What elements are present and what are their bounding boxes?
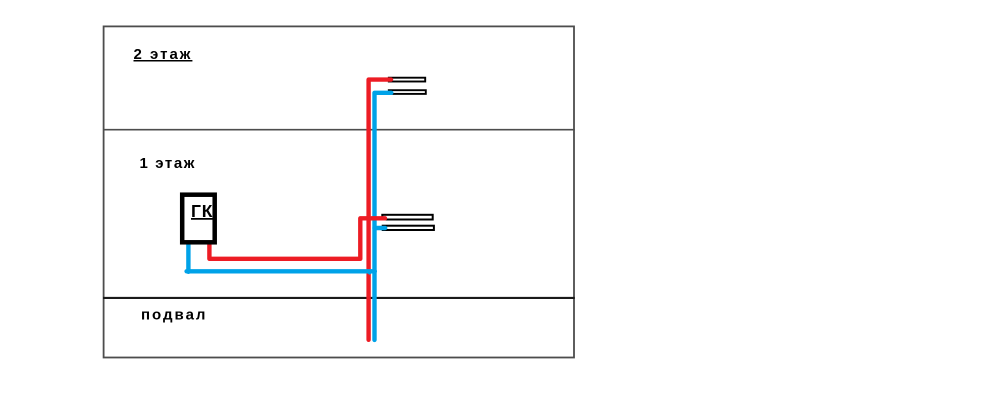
svg-text:1 этаж: 1 этаж bbox=[140, 155, 197, 172]
red supply riser with floor2 radiator elbow bbox=[369, 80, 391, 340]
svg-text:2 этаж: 2 этаж bbox=[134, 46, 193, 63]
floor line between 1st floor and basement bbox=[103, 297, 575, 299]
floor line between 2nd and 1st floor bbox=[103, 129, 575, 131]
building outline rectangle bbox=[104, 26, 574, 357]
blue junction diamond bbox=[366, 270, 373, 275]
radiator floor1 top bar bbox=[382, 215, 432, 220]
blue stub to floor1 radiator bbox=[375, 226, 386, 230]
boiler box ГК bbox=[182, 195, 215, 243]
blue pipe from boiler down bbox=[186, 243, 190, 272]
svg-text:ГК: ГК bbox=[191, 201, 213, 221]
blue return riser with floor2 radiator elbow bbox=[375, 93, 392, 340]
blue pipe horizontal to riser bbox=[187, 269, 375, 273]
radiator floor2 top bar bbox=[389, 78, 425, 82]
radiator floor1 bottom bar bbox=[383, 226, 434, 230]
red pipe from boiler to floor1 radiator bbox=[209, 218, 385, 258]
radiator floor2 bottom bar bbox=[389, 90, 426, 94]
svg-text:подвал: подвал bbox=[141, 307, 207, 324]
